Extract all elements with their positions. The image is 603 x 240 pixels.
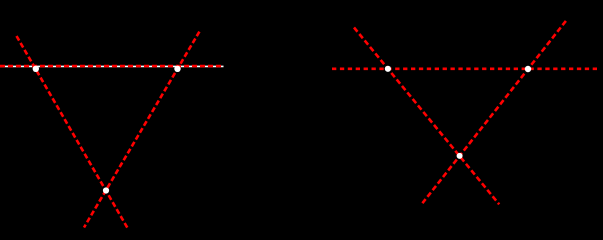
wire: left figure horizontal dashed red line [0, 65, 224, 68]
wire: left figure diagonal dashed red line (top-right to bottom-left) [84, 32, 199, 228]
wire: right figure diagonal dashed red line (top-left to bottom-right) [354, 28, 499, 205]
node: left figure bottom intersection dot [103, 187, 109, 193]
node: right figure right intersection dot [525, 66, 531, 72]
node: left figure left intersection dot [33, 66, 39, 72]
node: left figure right intersection dot [174, 66, 180, 72]
node: right figure left intersection dot [385, 66, 391, 72]
wire: left figure horizontal line solid white underlay [0, 65, 224, 67]
node: right figure centre crossing dot [457, 153, 463, 159]
wire: right figure horizontal dashed red line [332, 68, 597, 71]
wire: left figure diagonal dashed red line (top-left to bottom-right) [17, 36, 128, 228]
wire: right figure diagonal dashed red line (top-right to bottom-left) [422, 21, 566, 203]
